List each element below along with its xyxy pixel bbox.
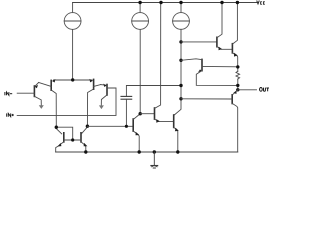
transistor Q8 NPN (emitter follower to Q9)	[155, 3, 174, 123]
capacitor C1 bottom lead	[125, 99, 127, 126]
ground arrow (Q1 collector to VEE)	[39, 105, 44, 109]
wire I2 column down to second stage node	[139, 29, 141, 113]
label IN-	[5, 92, 12, 95]
transistor Q3 inner-right PNP	[87, 79, 100, 126]
transistor Q6 mirror-right NPN	[81, 127, 87, 152]
resistor R1 (output series)	[236, 67, 240, 90]
wire I3 column (second stage collector node B)	[174, 29, 181, 115]
node top rail dots	[138, 1, 141, 4]
node resistor bottom / limit emitter dot	[236, 84, 239, 87]
transistor Q7 second-stage NPN	[133, 114, 140, 152]
transistor Q5 mirror-left NPN	[56, 129, 64, 152]
node Q7 collector dot	[139, 112, 142, 115]
capacitor C1 top lead	[126, 86, 181, 97]
wire IN+ lead and loop to Q4 base	[17, 88, 116, 115]
current source I2	[132, 3, 149, 30]
capacitor C1	[121, 96, 132, 99]
wire VCC top rail	[73, 2, 257, 4]
node B dots on I3 column	[179, 40, 182, 43]
wire bottom rail VEE	[56, 151, 238, 153]
current source I3	[173, 3, 190, 30]
node R1 top dot	[236, 65, 239, 68]
wire node B to Q10 base	[181, 41, 217, 43]
node C1 bottom dot	[125, 125, 128, 128]
wire Q7 collector node to Q8 base	[140, 113, 154, 115]
transistor Q10 darlington NPN 1	[217, 3, 233, 51]
wire mirror output to Q7 base	[87, 125, 133, 127]
current source I1	[64, 3, 81, 30]
ground arrow (Q4 collector to VEE)	[99, 105, 104, 109]
wire IN- lead	[17, 92, 34, 94]
transistor Q4 outer-right PNP (IN+)	[101, 84, 107, 106]
transistor Q2 inner-left PNP	[39, 80, 57, 127]
wire mirror base link	[64, 139, 81, 141]
ground symbol	[151, 152, 158, 168]
label IN+	[7, 113, 14, 116]
wire OUT lead	[238, 89, 257, 91]
node rail dots	[84, 150, 87, 153]
wire I1 to tail node	[72, 29, 74, 80]
wire mirror diode connection	[56, 127, 72, 140]
label OUT	[260, 88, 269, 92]
transistor Q1 outer-left PNP (IN-)	[34, 83, 41, 106]
label VCC	[257, 1, 265, 5]
node Q6 collector dot	[86, 125, 89, 128]
node tail junction dot	[71, 78, 74, 81]
tail arrowheads into Q2/Q3 emitters	[52, 79, 55, 83]
transistor Q13 output sink NPN	[181, 90, 238, 152]
node OUT dot	[236, 88, 239, 91]
wire tail emitter line	[54, 79, 93, 81]
transistor Q9 second-stage output NPN	[174, 115, 179, 152]
transistor Q11 darlington NPN 2	[232, 3, 237, 67]
node mirror link dot	[71, 138, 74, 141]
node Q5 collector dot	[55, 126, 58, 129]
transistor Q12 current-limit PNP	[181, 59, 238, 86]
